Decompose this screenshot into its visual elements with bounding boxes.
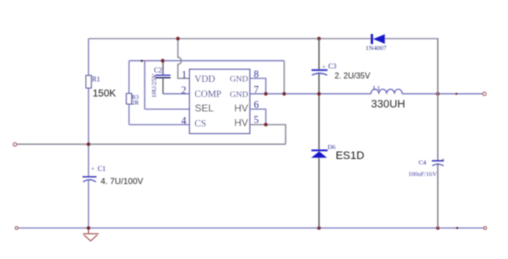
svg-text:+: + (91, 166, 95, 173)
capacitor C4 (432, 161, 444, 166)
junction dot C2 top (161, 59, 165, 63)
svg-text:4: 4 (181, 116, 186, 127)
svg-text:150K: 150K (93, 88, 117, 99)
junction dot output / right rail (436, 92, 440, 96)
junction dot output line / over-IC drop (282, 92, 286, 96)
junction faint dot SEL branch (145, 60, 147, 62)
junction dot output line / middle vertical (317, 92, 321, 96)
wire over-IC elbow down x=284.2 (283, 61, 285, 94)
wire VDD drop with hop x=177.9 (178, 39, 190, 79)
svg-text:10U/25V: 10U/25V (151, 73, 158, 98)
svg-text:GND: GND (230, 74, 248, 84)
svg-text:+: + (322, 64, 326, 71)
svg-text:100uF/16V: 100uF/16V (408, 171, 437, 178)
wire pin5 net to input line (250, 125, 286, 145)
wire over-IC net y=60.7 (129, 60, 284, 62)
inductor L1 (371, 89, 402, 94)
terminal input + (13, 143, 16, 146)
svg-text:C4: C4 (419, 160, 427, 167)
svg-text:1: 1 (182, 70, 187, 81)
junction dot bottom left rail (87, 226, 91, 230)
svg-text:HV: HV (234, 118, 248, 129)
junction dot output line / pin8 drop (264, 92, 268, 96)
junction dot pin5 pin6 (264, 123, 268, 127)
resistor R3 (126, 94, 131, 105)
svg-text:R1: R1 (92, 75, 101, 83)
op-amp U1 IC box (190, 69, 250, 133)
junction small dot bottom (456, 227, 458, 229)
capacitor C1 (83, 177, 97, 182)
svg-text:L1: L1 (373, 85, 380, 92)
svg-text:SEL: SEL (195, 104, 214, 115)
wire CS pin4 net (129, 124, 190, 126)
svg-text:CS: CS (195, 119, 207, 129)
junction dot right rail bottom (436, 226, 440, 230)
wire R3 branch vertical x=129 (128, 61, 130, 125)
wire left vertical input rail (88, 39, 90, 76)
svg-text:GND: GND (230, 89, 248, 99)
wire right vertical x=437.8 (437, 39, 439, 228)
resistor R1 (86, 76, 91, 89)
junction small dark dot (141, 60, 143, 62)
wire output line y=93.8 (250, 93, 483, 95)
junction dot D6 bottom (317, 226, 321, 230)
wire SEL pin3 net (145, 108, 190, 110)
diode D6 ES1D (311, 150, 327, 157)
wire pin6 elbow to pin5 (250, 109, 266, 125)
svg-text:C1: C1 (98, 165, 107, 173)
wire COMP pin2 net (163, 93, 190, 95)
svg-text:COMP: COMP (195, 90, 222, 100)
svg-text:2R: 2R (132, 101, 139, 107)
junction dot top rail / middle vertical (317, 37, 321, 41)
svg-text:VDD: VDD (195, 75, 216, 85)
wire left vertical below R1 (88, 88, 90, 177)
diode D5 1N4007 (372, 34, 385, 44)
svg-text:HV: HV (234, 104, 248, 115)
wire top rail (89, 38, 439, 40)
junction dot input line / left rail (87, 142, 91, 146)
wire input line y=144.2 (16, 143, 285, 145)
svg-text:C2: C2 (154, 67, 163, 75)
capacitor C3 (312, 70, 328, 75)
terminal bottom left - (15, 227, 18, 230)
svg-text:ES1D: ES1D (336, 150, 365, 162)
svg-text:4. 7U/100V: 4. 7U/100V (101, 176, 144, 186)
svg-text:330UH: 330UH (371, 98, 405, 110)
svg-text:2: 2 (181, 85, 186, 96)
wire middle vertical x=319 (318, 39, 320, 228)
terminal bottom right (484, 227, 487, 230)
capacitor C2 (155, 61, 170, 94)
wire SEL branch vertical x=144.7 (144, 61, 146, 109)
svg-text:+: + (441, 157, 445, 164)
svg-text:2. 2U/35V: 2. 2U/35V (335, 71, 371, 80)
svg-text:C3: C3 (328, 62, 337, 70)
svg-text:1N4007: 1N4007 (366, 45, 388, 52)
ground (83, 228, 99, 241)
wire bottom rail (18, 227, 484, 229)
junction small dot output (455, 93, 457, 95)
wire pin8 elbow to output line (250, 78, 266, 93)
junction dot top rail / VDD drop (176, 37, 180, 41)
terminal output + (483, 92, 486, 95)
